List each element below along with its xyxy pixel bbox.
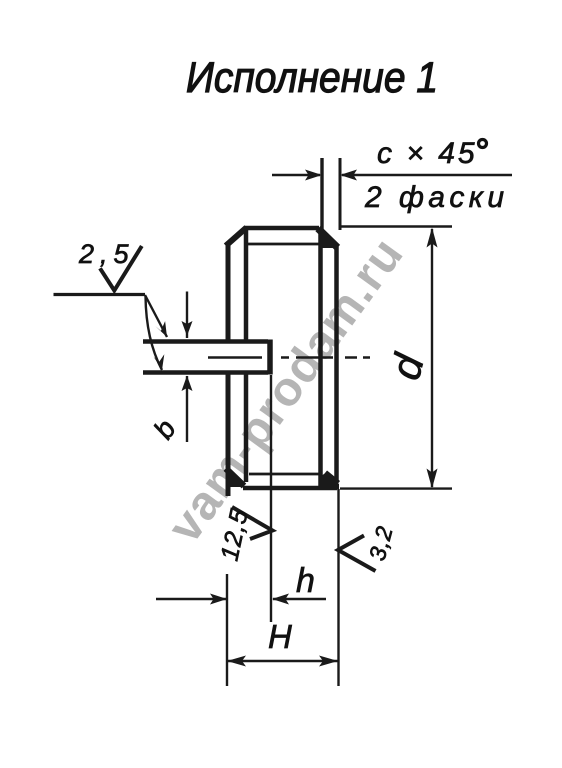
svg-text:H: H: [268, 618, 292, 655]
svg-text:2 фаски: 2 фаски: [364, 181, 508, 214]
svg-text:h: h: [296, 562, 315, 600]
svg-text:2,5: 2,5: [78, 239, 135, 269]
svg-text:c × 45: c × 45: [377, 137, 478, 170]
svg-text:Исполнение 1: Исполнение 1: [186, 54, 438, 102]
